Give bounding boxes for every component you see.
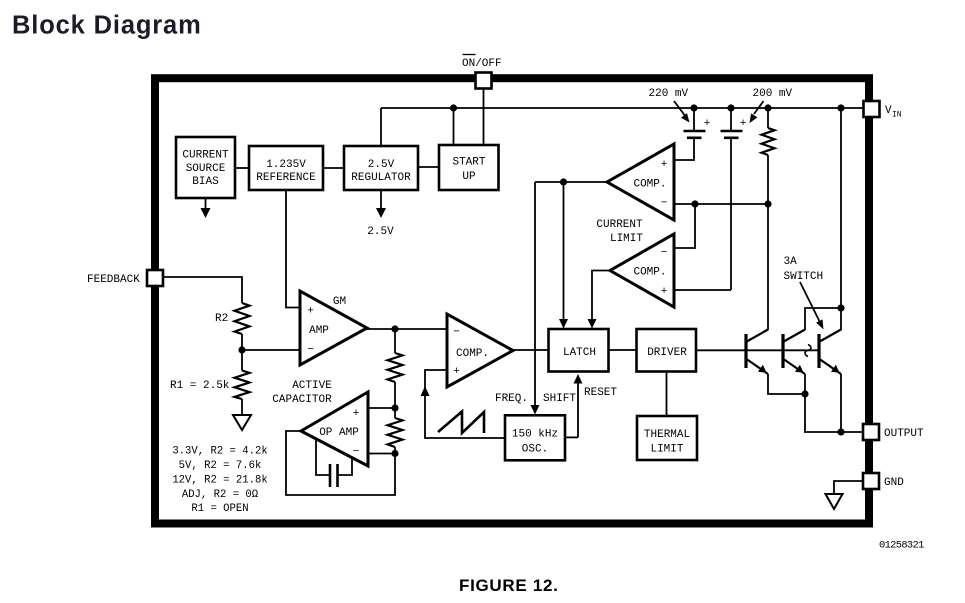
svg-text:−: − [353,446,360,458]
GND label [884,477,904,489]
VIN label [885,105,902,120]
3A switch label [784,256,824,283]
svg-text:ACTIVE: ACTIVE [292,380,332,392]
svg-text:GM: GM [333,296,346,308]
svg-text:01258321: 01258321 [879,540,924,552]
svg-text:RESET: RESET [584,387,617,399]
svg-text:+: + [307,306,314,318]
wire op-amp - input to chain node [368,453,395,455]
R1 value label [170,380,230,392]
Q3 emitter with arrow [818,358,841,374]
wire comp1 + input to 220mV cap [674,139,694,160]
arrowhead comp2 to latch [588,319,597,329]
svg-text:+: + [453,366,460,378]
svg-text:−: − [453,327,460,339]
svg-text:R1 = OPEN: R1 = OPEN [191,503,248,515]
ground symbol at GND pad [826,494,843,509]
arrowhead freq shift into oscillator [531,405,540,415]
wire comp1 output down to oscillator freq shift [534,182,536,407]
svg-text:1.235V: 1.235V [266,159,306,171]
svg-text:+: + [740,118,747,130]
pad ON/OFF [476,73,492,89]
resistor chain upper (GM load) [388,353,403,382]
svg-text:REFERENCE: REFERENCE [256,172,316,184]
svg-text:+: + [661,159,668,171]
wire emitter node to output rail [805,394,863,432]
resistor R2 [235,303,250,334]
svg-text:GND: GND [884,477,904,489]
wire 220mV cap top to VIN rail [693,108,695,131]
Q2 collector [782,330,805,343]
GM label [333,296,346,308]
svg-text:+: + [353,408,360,420]
current sense resistor [762,128,775,155]
svg-text:3A: 3A [784,256,798,268]
svg-text:CAPACITOR: CAPACITOR [272,394,332,406]
svg-text:R1 = 2.5k: R1 = 2.5k [170,380,230,392]
wire oscillator to reset corner [565,436,578,438]
part number 01258321 [879,540,924,552]
wire VIN rail y=108 [381,107,863,109]
svg-text:200 mV: 200 mV [753,88,793,100]
svg-text:OSC.: OSC. [522,444,548,456]
svg-text:3.3V, R2 = 4.2k: 3.3V, R2 = 4.2k [172,446,267,458]
svg-text:IN: IN [892,111,902,120]
pad VIN [864,101,880,117]
diagram frame border [155,78,869,523]
title Block Diagram [12,12,202,40]
box driver [637,329,697,372]
svg-text:220 mV: 220 mV [649,88,689,100]
svg-text:5V, R2 = 7.6k: 5V, R2 = 7.6k [179,460,262,472]
svg-text:LIMIT: LIMIT [650,444,683,456]
wire current source bias to reference [235,167,249,169]
wire comp2 output to latch corner [592,271,610,321]
FEEDBACK label [87,274,140,286]
3A switch pointer arrow [800,282,824,330]
freq shift labels [495,393,576,405]
svg-text:CURRENT: CURRENT [182,150,229,162]
wire 200mV cap top to VIN rail [730,108,732,131]
pad FEEDBACK [147,270,163,286]
wire comp1 output to freq-shift corner [535,181,607,183]
pad OUTPUT [863,424,879,440]
svg-text:ADJ, R2 = 0Ω: ADJ, R2 = 0Ω [182,489,259,501]
resistor R1 [235,371,250,400]
wire 200mV cap bottom down to comp2 + [730,139,732,290]
arrowhead oscillator into comparator + [421,386,430,396]
wire R1 bottom to ground [241,399,243,416]
wire GND pad to ground symbol [834,481,863,494]
svg-text:FREQ.: FREQ. [495,393,528,405]
wire R2/R1 node to GM amp - input [242,349,301,351]
svg-text:BIAS: BIAS [192,176,219,188]
wire VIN rail down to Q3 collector [840,108,842,330]
active capacitor label [272,380,332,406]
main comparator [447,314,513,387]
svg-text:2.5V: 2.5V [368,159,395,171]
box 150 kHz oscillator [505,415,565,460]
wire GM amp output to main comparator - input [367,328,447,330]
wire Q1 emitter down and right [768,374,805,394]
220 mV pointer arrow [674,101,690,123]
wire reference output down to GM amp + input [286,190,301,308]
resistor chain lower [388,418,403,447]
svg-text:DRIVER: DRIVER [647,347,687,359]
svg-text:12V, R2 = 21.8k: 12V, R2 = 21.8k [172,475,267,487]
2.5V output label [367,226,394,238]
wire resistor chain bottom to op-amp output rail [286,431,395,495]
box 2.5V regulator [344,146,418,190]
svg-text:SOURCE: SOURCE [186,163,226,175]
wire Q3 emitter down to output node [840,374,842,432]
arrowhead reset into latch [574,374,583,384]
svg-text:LIMIT: LIMIT [610,233,643,245]
wire feedback pad to R2 top [163,277,242,303]
Q1 collector [745,330,768,343]
pad GND [863,473,879,489]
box thermal limit [637,416,697,460]
transistor Q2 bar [781,334,784,368]
GM amp [300,291,367,365]
capacitor C3 op-amp feedback plates [330,464,338,487]
wire R2 bottom to R1 top [241,334,243,371]
svg-text:−: − [661,198,668,210]
svg-text:AMP: AMP [309,325,329,337]
wire driver to switch base rail [696,349,819,351]
capacitor C2 200mV plates [721,118,747,138]
OUTPUT label [884,428,924,440]
current limit comparator U3 (bottom) [610,234,674,307]
wire Q2 emitter down to node [804,374,806,394]
wire VIN rail to sense resistor top [767,108,769,128]
transistor Q1 bar [744,334,747,368]
svg-text:COMP.: COMP. [456,348,489,360]
transistor Q3 bar [817,334,820,368]
wire Q2 collector to Q3 collector line [805,308,841,330]
output option table [172,446,267,516]
svg-text:SWITCH: SWITCH [784,271,824,283]
wire main comparator output to latch [513,349,549,351]
box 1.235V reference [249,146,323,190]
arrowhead comp1 to latch [559,319,568,329]
op-amp U1 (active capacitor) [301,392,368,466]
wire regulator to start-up [418,166,442,168]
svg-text:R2: R2 [215,313,228,325]
wire op-amp capacitor right leg [339,458,353,475]
svg-text:150 kHz: 150 kHz [512,429,558,441]
svg-text:UP: UP [462,171,476,183]
capacitor C1 220mV plates [684,118,711,138]
wire comp1 - input rail to sense resistor [674,203,768,205]
svg-text:2.5V: 2.5V [367,226,394,238]
box start up [439,145,499,190]
Q2 emitter with arrow [782,358,805,374]
wire reset up to latch [577,382,579,437]
Q3 collector [818,330,841,343]
Q1 emitter with arrow [745,358,768,374]
svg-text:OUTPUT: OUTPUT [884,428,924,440]
wire ON/OFF pad to start-up top [483,88,485,145]
box latch [549,329,609,372]
svg-text:Block Diagram: Block Diagram [12,12,202,40]
wire VIN rail to start-up top [453,108,455,145]
200 mV label [753,88,793,100]
svg-text:ON/OFF: ON/OFF [462,58,502,70]
current limit comparator U2 (top) [607,144,674,220]
wire resistor chain middle segment [394,382,396,418]
wire op-amp capacitor left leg [316,440,329,475]
wire comp2 + input to 200mV cap [674,289,731,291]
arrow 2.5V regulator output [376,190,386,218]
wire op-amp + input to chain node [368,407,395,409]
svg-text:START: START [452,157,485,169]
svg-text:−: − [661,247,668,259]
ON/OFF label with overline [462,55,502,71]
svg-text:COMP.: COMP. [633,267,666,279]
svg-text:V: V [885,105,892,117]
box current source bias [176,137,235,198]
svg-text:SHIFT: SHIFT [543,393,576,405]
current limit label [596,219,643,245]
reset label [584,387,617,399]
svg-text:LATCH: LATCH [563,347,596,359]
200 mV pointer arrow [750,101,764,123]
svg-text:FEEDBACK: FEEDBACK [87,274,140,286]
svg-text:CURRENT: CURRENT [596,219,643,231]
wire comp2 - input to comp1 - node [674,204,695,248]
arrow current source bias output [201,198,211,218]
svg-text:THERMAL: THERMAL [644,429,690,441]
svg-text:+: + [661,286,668,298]
wire GM output node down to resistor chain [394,329,396,353]
svg-text:−: − [307,344,314,356]
220 mV label [649,88,689,100]
wire latch to driver [609,349,637,351]
svg-text:COMP.: COMP. [633,179,666,191]
wire reference to regulator [323,167,344,169]
figure caption [459,576,559,595]
ground for R1 [233,415,251,430]
wire comp1 output down to latch (set) [563,182,565,320]
base squiggle at Q3 [805,345,811,357]
svg-text:FIGURE 12.: FIGURE 12. [459,576,559,595]
wire oscillator to main comparator + input [425,370,505,438]
svg-text:OP AMP: OP AMP [319,427,359,439]
svg-text:REGULATOR: REGULATOR [351,172,411,184]
svg-text:+: + [704,118,711,130]
wire driver to thermal limit [666,372,668,417]
wire sense resistor bottom to Q1 collector [767,155,769,330]
R2 label [215,313,228,325]
wire VIN rail to 2.5V regulator top [380,108,382,146]
sawtooth waveform [438,412,484,434]
